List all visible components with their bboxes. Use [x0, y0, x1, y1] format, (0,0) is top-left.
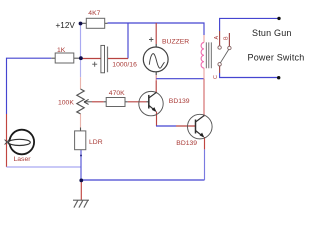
svg-text:A: A	[214, 36, 220, 40]
svg-text:LDR: LDR	[89, 139, 103, 146]
svg-text:C: C	[213, 75, 219, 79]
svg-text:100K: 100K	[58, 99, 74, 106]
svg-text:BD139: BD139	[176, 140, 197, 147]
svg-text:470K: 470K	[109, 90, 125, 97]
svg-text:Stun Gun: Stun Gun	[252, 28, 292, 38]
svg-text:BUZZER: BUZZER	[162, 39, 189, 46]
svg-text:1000/16: 1000/16	[112, 61, 137, 68]
svg-text:1K: 1K	[57, 47, 66, 54]
svg-text:BD139: BD139	[169, 98, 190, 105]
svg-text:+12V: +12V	[56, 21, 76, 30]
svg-text:4K7: 4K7	[88, 10, 100, 17]
svg-text:B: B	[224, 36, 230, 40]
svg-text:Laser: Laser	[14, 156, 32, 163]
svg-text:Power Switch: Power Switch	[248, 53, 305, 63]
